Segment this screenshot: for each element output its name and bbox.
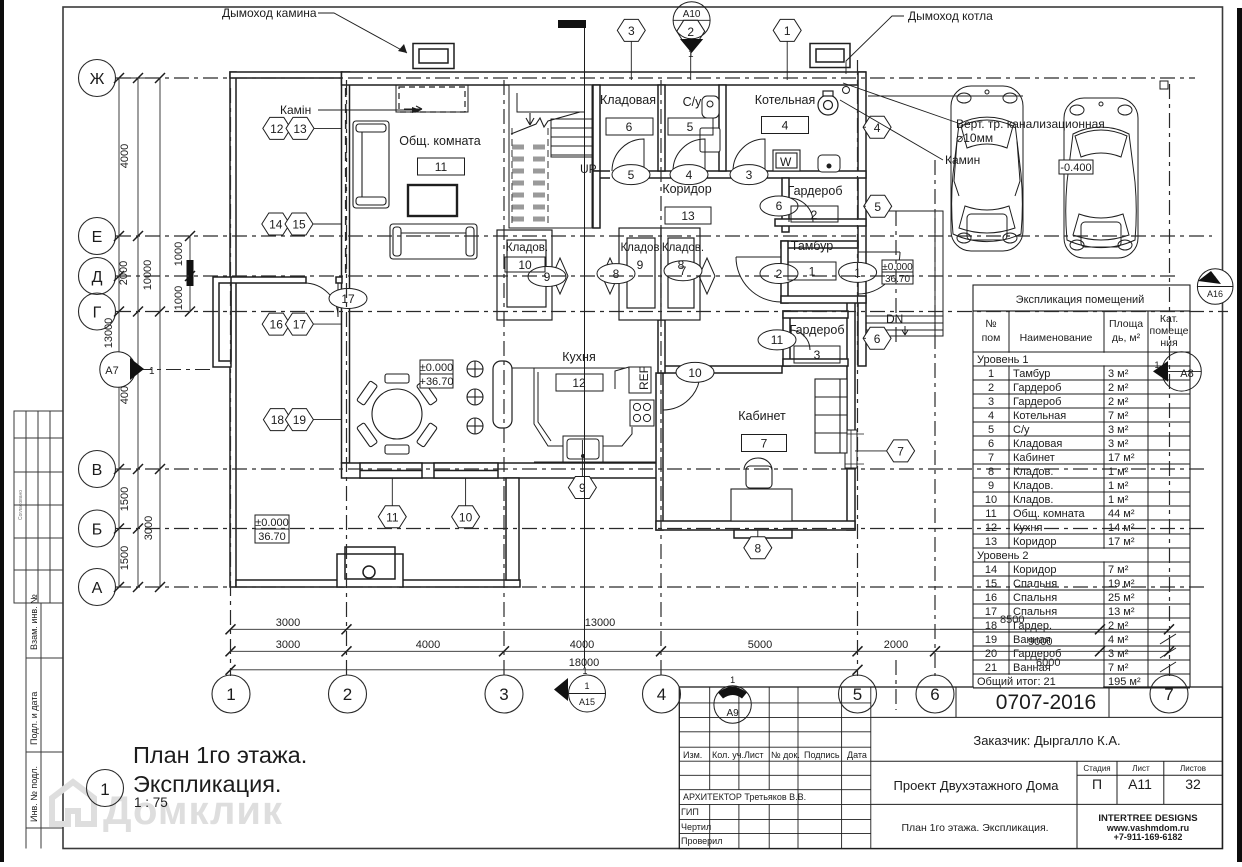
svg-text:17 м²: 17 м² bbox=[1108, 452, 1135, 464]
svg-text:3: 3 bbox=[628, 24, 635, 38]
svg-text:Спальня: Спальня bbox=[1013, 606, 1057, 618]
horizontal sofa bbox=[390, 224, 477, 259]
wall bottom of storage row (y171-178) bbox=[593, 171, 866, 178]
svg-text:16: 16 bbox=[270, 318, 284, 332]
svg-text:17: 17 bbox=[341, 292, 355, 306]
svg-text:5: 5 bbox=[853, 685, 862, 704]
left dim ticks bbox=[114, 73, 195, 592]
svg-text:3 м²: 3 м² bbox=[1108, 424, 1129, 436]
svg-text:UP: UP bbox=[580, 162, 597, 176]
svg-text:10: 10 bbox=[688, 366, 702, 380]
left dimension chain lines bbox=[116, 78, 191, 587]
room number boxes bbox=[418, 117, 841, 452]
hexagon leader lines bbox=[313, 42, 887, 537]
svg-text:6: 6 bbox=[874, 332, 881, 346]
svg-text:Д: Д bbox=[92, 269, 103, 286]
svg-text:W: W bbox=[780, 155, 792, 169]
svg-text:Подпись: Подпись bbox=[804, 750, 840, 760]
wardrobe in kabinet bbox=[815, 379, 847, 453]
svg-text:5000: 5000 bbox=[748, 639, 772, 651]
terrace west wall bbox=[230, 72, 236, 587]
svg-text:A15: A15 bbox=[579, 697, 595, 707]
section marker A7 bbox=[100, 352, 155, 388]
landing line bbox=[517, 93, 585, 112]
section marker A10 top bbox=[673, 2, 710, 60]
svg-text:Кухня: Кухня bbox=[562, 350, 595, 364]
svg-text:3: 3 bbox=[988, 396, 994, 408]
svg-text:2000: 2000 bbox=[884, 639, 908, 651]
svg-text:1 м²: 1 м² bbox=[1108, 466, 1129, 478]
svg-text:REF: REF bbox=[637, 366, 651, 390]
W washing machine bbox=[773, 150, 800, 171]
svg-text:7: 7 bbox=[988, 452, 994, 464]
svg-text:3 м²: 3 м² bbox=[1108, 368, 1129, 380]
svg-text:12: 12 bbox=[270, 122, 284, 136]
svg-text:4: 4 bbox=[686, 168, 693, 182]
kabinet west wall bbox=[656, 373, 663, 530]
svg-text:1500: 1500 bbox=[119, 487, 131, 511]
small square top right bbox=[1160, 81, 1168, 89]
svg-text:16: 16 bbox=[985, 592, 997, 604]
car 2 bbox=[1064, 98, 1138, 258]
svg-text:2: 2 bbox=[343, 685, 352, 704]
svg-text:6: 6 bbox=[626, 120, 633, 134]
svg-text:10: 10 bbox=[985, 494, 997, 506]
stair flight edges dashed bbox=[512, 128, 548, 225]
svg-text:4: 4 bbox=[657, 685, 666, 704]
bottom dim texts bbox=[276, 617, 908, 669]
svg-text:17: 17 bbox=[293, 318, 307, 332]
svg-text:дь, м²: дь, м² bbox=[1112, 332, 1141, 344]
svg-text:20: 20 bbox=[985, 648, 997, 660]
svg-text:9: 9 bbox=[988, 480, 994, 492]
svg-text:18: 18 bbox=[985, 620, 997, 632]
svg-text:4000: 4000 bbox=[416, 639, 440, 651]
svg-text:3000: 3000 bbox=[276, 639, 300, 651]
axis 7 bbox=[1169, 84, 1171, 676]
svg-text:Инв. № подл.: Инв. № подл. bbox=[29, 766, 39, 822]
svg-text:3000: 3000 bbox=[276, 617, 300, 629]
svg-text:-0.400: -0.400 bbox=[1060, 162, 1091, 174]
top annotation texts bbox=[222, 6, 1105, 167]
svg-text:195 м²: 195 м² bbox=[1108, 676, 1141, 688]
svg-text:Кладов.: Кладов. bbox=[1013, 480, 1053, 492]
svg-text:2 м²: 2 м² bbox=[1108, 620, 1129, 632]
A9 marker in title block bbox=[714, 675, 751, 723]
svg-text:Общ. комната: Общ. комната bbox=[399, 134, 480, 148]
grid bubbles left bbox=[79, 60, 116, 606]
svg-text:Верт. тр. канализационная: Верт. тр. канализационная bbox=[956, 117, 1105, 131]
svg-text:13 м²: 13 м² bbox=[1108, 606, 1135, 618]
door kabinet bbox=[663, 373, 700, 410]
svg-text:Спальня: Спальня bbox=[1013, 578, 1057, 590]
kitchen sink bbox=[563, 436, 603, 462]
left small table bbox=[679, 687, 871, 849]
wall segment y320-366 x661 bbox=[658, 320, 665, 373]
svg-text:Кухня: Кухня bbox=[1013, 522, 1042, 534]
section marker A16 top right bbox=[1197, 269, 1233, 305]
bar counter bbox=[493, 361, 512, 428]
svg-text:5: 5 bbox=[628, 168, 635, 182]
svg-text:Стадия: Стадия bbox=[1083, 764, 1110, 773]
stairs bbox=[509, 85, 592, 228]
right section bbox=[871, 687, 1223, 849]
svg-text:4000: 4000 bbox=[570, 639, 594, 651]
terrace south wall bbox=[236, 580, 344, 587]
svg-text:Коридор: Коридор bbox=[1013, 536, 1056, 548]
A7 section dash line bbox=[137, 369, 213, 371]
svg-text:0707-2016: 0707-2016 bbox=[996, 691, 1096, 714]
door openings in y171 wall bbox=[610, 170, 765, 179]
svg-text:13: 13 bbox=[681, 209, 695, 223]
svg-text:Общий итог: 21: Общий итог: 21 bbox=[977, 676, 1056, 688]
dining south wall bbox=[342, 463, 658, 478]
svg-text:4: 4 bbox=[988, 410, 994, 422]
svg-text:План 1го этажа. Экспликация.: План 1го этажа. Экспликация. bbox=[901, 822, 1048, 834]
svg-text:11: 11 bbox=[386, 511, 399, 525]
window on west wall (door to terrace) bbox=[213, 277, 231, 367]
svg-text:Г: Г bbox=[93, 305, 102, 322]
svg-text:6: 6 bbox=[988, 438, 994, 450]
svg-text:П: П bbox=[1092, 776, 1102, 792]
svg-text:7 м²: 7 м² bbox=[1108, 410, 1129, 422]
door tag ovals bbox=[329, 165, 877, 383]
axis 6b bbox=[895, 211, 897, 345]
svg-text:Экспликация.: Экспликация. bbox=[133, 771, 281, 797]
desk in kabinet bbox=[731, 458, 792, 521]
header row bbox=[973, 311, 1190, 688]
chairs bbox=[357, 374, 438, 454]
lower flight dashed treads bbox=[512, 147, 548, 219]
dining south windows (white openings with lines) bbox=[360, 463, 498, 478]
svg-text:12: 12 bbox=[572, 376, 586, 390]
svg-text:Гардероб: Гардероб bbox=[1013, 382, 1061, 394]
svg-text:АРХИТЕКТОР Третьяков В.В.: АРХИТЕКТОР Третьяков В.В. bbox=[683, 792, 806, 802]
svg-text:19: 19 bbox=[985, 634, 997, 646]
svg-text:9: 9 bbox=[637, 258, 644, 272]
axis 4 bbox=[660, 80, 662, 676]
watermark домклик bbox=[52, 782, 283, 833]
kitchen counter bbox=[512, 368, 656, 462]
svg-text:Камін: Камін bbox=[280, 103, 311, 117]
svg-text:5: 5 bbox=[687, 120, 694, 134]
svg-text:Кол. уч.: Кол. уч. bbox=[712, 750, 744, 760]
bottom dimension chain lines bbox=[231, 629, 1170, 670]
svg-text:1: 1 bbox=[226, 685, 235, 704]
svg-text:+7-911-169-6182: +7-911-169-6182 bbox=[1114, 832, 1183, 842]
axis Ж bbox=[116, 77, 1195, 79]
svg-text:С/у: С/у bbox=[683, 95, 703, 109]
svg-text:Экспликация помещений: Экспликация помещений bbox=[1016, 294, 1145, 306]
svg-text:А7: А7 bbox=[105, 365, 118, 377]
svg-text:A10: A10 bbox=[683, 9, 701, 20]
svg-text:Площа: Площа bbox=[1109, 318, 1143, 330]
svg-text:Кабинет: Кабинет bbox=[738, 409, 786, 423]
svg-text:3: 3 bbox=[499, 685, 508, 704]
svg-text:A8: A8 bbox=[1180, 368, 1193, 380]
svg-text:Ж: Ж bbox=[90, 71, 105, 88]
grid axis lines vertical (dash-dot) bbox=[231, 60, 1170, 710]
left dim texts (rotated) bbox=[103, 144, 185, 570]
svg-text:19 м²: 19 м² bbox=[1108, 578, 1135, 590]
porch column circle bbox=[363, 566, 375, 578]
svg-text:Гардероб: Гардероб bbox=[1013, 396, 1061, 408]
svg-text:3: 3 bbox=[746, 168, 753, 182]
hexagon axis tags bbox=[262, 19, 915, 558]
scan edge left bbox=[0, 0, 4, 862]
scan edge right bbox=[1237, 8, 1242, 862]
tambur north wall bbox=[781, 241, 858, 248]
kladovaya/su wall bbox=[658, 85, 665, 171]
door tambur west bbox=[736, 257, 781, 302]
svg-text:2 м²: 2 м² bbox=[1108, 382, 1129, 394]
kitchen stove bbox=[630, 400, 654, 426]
level mark boxes bbox=[255, 160, 1093, 543]
entrance porch right bbox=[866, 211, 943, 336]
svg-text:1: 1 bbox=[784, 24, 791, 38]
svg-text:ГИП: ГИП bbox=[681, 807, 699, 817]
svg-text:Листов: Листов bbox=[1180, 764, 1206, 773]
svg-text:10: 10 bbox=[459, 511, 473, 525]
garderob3 box walls bbox=[783, 311, 790, 366]
kladovaya west wall bbox=[593, 85, 600, 171]
svg-text:Кладовая: Кладовая bbox=[1013, 438, 1062, 450]
svg-text:3 м²: 3 м² bbox=[1108, 438, 1129, 450]
axis В bbox=[116, 468, 1205, 470]
svg-text:25 м²: 25 м² bbox=[1108, 592, 1135, 604]
svg-text:1: 1 bbox=[730, 675, 735, 685]
door garderob2 bbox=[789, 198, 813, 222]
grid bubbles bottom bbox=[212, 675, 1188, 713]
svg-text:Котельная: Котельная bbox=[1013, 410, 1066, 422]
terrace porch step notch bbox=[337, 554, 403, 587]
stair shaft outline bbox=[509, 85, 592, 228]
west wall glazing dashes bbox=[345, 88, 347, 276]
svg-text:Лист: Лист bbox=[1132, 764, 1150, 773]
small square table bbox=[1160, 300, 1168, 308]
svg-text:С/у: С/у bbox=[1013, 424, 1030, 436]
svg-text:В: В bbox=[92, 462, 103, 479]
chimney камин on north wall bbox=[413, 44, 454, 69]
svg-text:2000: 2000 bbox=[118, 261, 130, 285]
svg-text:14: 14 bbox=[985, 564, 997, 576]
svg-text:+36.70: +36.70 bbox=[420, 376, 454, 388]
svg-text:11: 11 bbox=[985, 508, 996, 520]
svg-text:4: 4 bbox=[782, 119, 789, 133]
svg-text:1500: 1500 bbox=[119, 546, 131, 570]
svg-text:7 м²: 7 м² bbox=[1108, 662, 1129, 674]
svg-text:17: 17 bbox=[985, 606, 997, 618]
svg-text:1 м²: 1 м² bbox=[1108, 480, 1129, 492]
svg-text:5: 5 bbox=[988, 424, 994, 436]
door 17 terrace divider bbox=[304, 283, 338, 317]
north wall inner line bbox=[342, 84, 867, 86]
svg-text:1: 1 bbox=[988, 368, 994, 380]
svg-text:Проверил: Проверил bbox=[681, 836, 722, 846]
black dim bar bbox=[187, 260, 194, 286]
car 1 bbox=[951, 86, 1023, 251]
svg-text:Уровень 2: Уровень 2 bbox=[977, 550, 1029, 562]
svg-text:2 м²: 2 м² bbox=[1108, 396, 1129, 408]
svg-text:Общ. комната: Общ. комната bbox=[1013, 508, 1086, 520]
svg-text:1 : 75: 1 : 75 bbox=[134, 795, 168, 810]
svg-text:36.70: 36.70 bbox=[258, 531, 286, 543]
table background bbox=[973, 285, 1190, 688]
svg-text:2: 2 bbox=[988, 382, 994, 394]
east wall kabinet bbox=[847, 298, 855, 530]
svg-text:4000: 4000 bbox=[119, 144, 131, 168]
sink in su bbox=[666, 128, 720, 229]
svg-text:Кладов.: Кладов. bbox=[506, 242, 548, 254]
svg-text:Кладов.: Кладов. bbox=[1013, 494, 1053, 506]
svg-text:8: 8 bbox=[988, 466, 994, 478]
vertical sofa bbox=[353, 121, 389, 208]
kabinet south wall bbox=[656, 521, 855, 530]
svg-text:№ док.: № док. bbox=[771, 750, 800, 760]
section line A15 vertical bbox=[584, 27, 586, 668]
svg-text:Кабинет: Кабинет bbox=[1013, 452, 1055, 464]
garderob2 west wall bbox=[782, 178, 789, 232]
door kotelnaya bbox=[733, 139, 765, 171]
tambur west wall bbox=[781, 241, 788, 303]
kabinet north wall bbox=[663, 366, 782, 373]
svg-text:7: 7 bbox=[897, 445, 904, 459]
east wall upper bbox=[858, 72, 866, 366]
title number circle bbox=[87, 770, 124, 807]
svg-text:DN: DN bbox=[886, 312, 903, 326]
svg-text:7: 7 bbox=[761, 437, 768, 451]
svg-text:±0.000: ±0.000 bbox=[420, 362, 454, 374]
svg-text:Заказчик: Дыргалло К.А.: Заказчик: Дыргалло К.А. bbox=[973, 733, 1120, 748]
svg-text:А11: А11 bbox=[1128, 776, 1152, 792]
svg-text:3: 3 bbox=[814, 348, 821, 362]
svg-text:№: № bbox=[985, 318, 996, 330]
tambur south wall bbox=[781, 296, 866, 303]
svg-text:Изм.: Изм. bbox=[683, 750, 702, 760]
svg-text:1000: 1000 bbox=[173, 242, 185, 266]
svg-text:Камин: Камин bbox=[945, 153, 980, 167]
axis 3 bbox=[503, 80, 505, 676]
svg-text:Кладовая: Кладовая bbox=[600, 93, 656, 107]
svg-text:1: 1 bbox=[584, 681, 589, 691]
svg-text:Ванная: Ванная bbox=[1013, 662, 1051, 674]
REF fridge bbox=[615, 367, 651, 393]
svg-text:Дымоход камина: Дымоход камина bbox=[222, 6, 317, 20]
svg-text:1 м²: 1 м² bbox=[1108, 494, 1129, 506]
svg-text:Чертил: Чертил bbox=[681, 822, 711, 832]
title text bottom left bbox=[133, 742, 307, 810]
svg-text:2: 2 bbox=[811, 208, 818, 222]
svg-text:11: 11 bbox=[435, 160, 448, 174]
svg-text:1000: 1000 bbox=[173, 286, 185, 310]
svg-text:Тамбур: Тамбур bbox=[1013, 368, 1050, 380]
boiler circle bbox=[818, 91, 838, 115]
svg-text:Дымоход котла: Дымоход котла bbox=[908, 9, 993, 23]
kladov closet boxes bbox=[497, 228, 700, 320]
svg-text:7: 7 bbox=[1164, 685, 1173, 704]
svg-text:9: 9 bbox=[579, 481, 586, 495]
svg-text:Спальня: Спальня bbox=[1013, 592, 1057, 604]
svg-text:Ванная: Ванная bbox=[1013, 634, 1051, 646]
svg-text:1: 1 bbox=[1154, 360, 1159, 370]
axis 1 bbox=[230, 88, 232, 676]
explication table rows bbox=[973, 366, 1190, 688]
door garderob3 bbox=[790, 330, 810, 350]
koridor/kitchen divider wall x593 bbox=[593, 171, 600, 228]
svg-text:План 1го этажа.: План 1го этажа. bbox=[133, 742, 307, 768]
section marker A8 right bbox=[1153, 352, 1201, 391]
sink kotelnaya bbox=[818, 155, 840, 172]
axis Е bbox=[116, 235, 1212, 237]
svg-text:Б: Б bbox=[92, 522, 103, 539]
svg-text:2: 2 bbox=[687, 25, 694, 39]
svg-text:Лист: Лист bbox=[744, 750, 764, 760]
section cut bar top bbox=[558, 20, 586, 28]
svg-text:8: 8 bbox=[678, 258, 685, 272]
svg-text:44 м²: 44 м² bbox=[1108, 508, 1135, 520]
svg-text:Тамбур: Тамбур bbox=[791, 239, 833, 253]
svg-text:11: 11 bbox=[771, 333, 784, 347]
fireplace niche outline bbox=[396, 85, 468, 112]
svg-text:8: 8 bbox=[613, 267, 620, 281]
svg-text:17 м²: 17 м² bbox=[1108, 536, 1135, 548]
left margin rotated labels bbox=[18, 490, 39, 822]
svg-text:Гардероб: Гардероб bbox=[1013, 648, 1061, 660]
svg-text:5: 5 bbox=[874, 200, 881, 214]
svg-text:Взам. инв. №: Взам. инв. № bbox=[29, 594, 39, 650]
svg-text:Подл. и дата: Подл. и дата bbox=[29, 692, 39, 745]
garderob2 south wall bbox=[775, 219, 866, 226]
kabinet east window bbox=[845, 430, 857, 468]
svg-text:14: 14 bbox=[269, 218, 283, 232]
door entrance bbox=[858, 252, 900, 294]
coffee table bbox=[408, 185, 457, 216]
svg-text:19: 19 bbox=[293, 413, 307, 427]
door su bbox=[673, 139, 705, 171]
door kladovaya bbox=[612, 139, 644, 171]
su/kotelnaya wall bbox=[719, 85, 726, 171]
svg-text:А: А bbox=[92, 580, 103, 597]
svg-text:32: 32 bbox=[1185, 776, 1201, 792]
axis А bbox=[116, 586, 1205, 588]
svg-text:6: 6 bbox=[776, 199, 783, 213]
svg-text:±0.000: ±0.000 bbox=[255, 517, 289, 529]
svg-text:Дата: Дата bbox=[847, 750, 867, 760]
svg-text:Коридор: Коридор bbox=[662, 182, 711, 196]
bar stools bbox=[467, 361, 483, 434]
kabinet south step bbox=[734, 530, 792, 538]
svg-text:Кладов.: Кладов. bbox=[1013, 466, 1053, 478]
svg-text:Согласовано: Согласовано bbox=[18, 490, 24, 520]
svg-text:12: 12 bbox=[985, 522, 997, 534]
svg-text:А9: А9 bbox=[726, 708, 739, 719]
overlapping dim texts behind bbox=[1000, 614, 1060, 669]
main north wall bbox=[342, 72, 866, 85]
svg-text:14 м²: 14 м² bbox=[1108, 522, 1135, 534]
svg-text:Кладов: Кладов bbox=[620, 242, 659, 254]
axis 6 bbox=[934, 160, 936, 676]
fireplace dashed bbox=[399, 87, 465, 112]
svg-text:13000: 13000 bbox=[103, 318, 115, 349]
svg-text:13: 13 bbox=[985, 536, 997, 548]
svg-text:10000: 10000 bbox=[142, 260, 154, 291]
svg-text:Гардер.: Гардер. bbox=[1013, 620, 1052, 632]
svg-text:Наименование: Наименование bbox=[1020, 332, 1093, 344]
svg-text:1: 1 bbox=[688, 49, 694, 60]
svg-text:Е: Е bbox=[92, 229, 103, 246]
svg-text:1: 1 bbox=[149, 366, 155, 377]
porch wall vertical below kitchen bbox=[506, 478, 519, 580]
